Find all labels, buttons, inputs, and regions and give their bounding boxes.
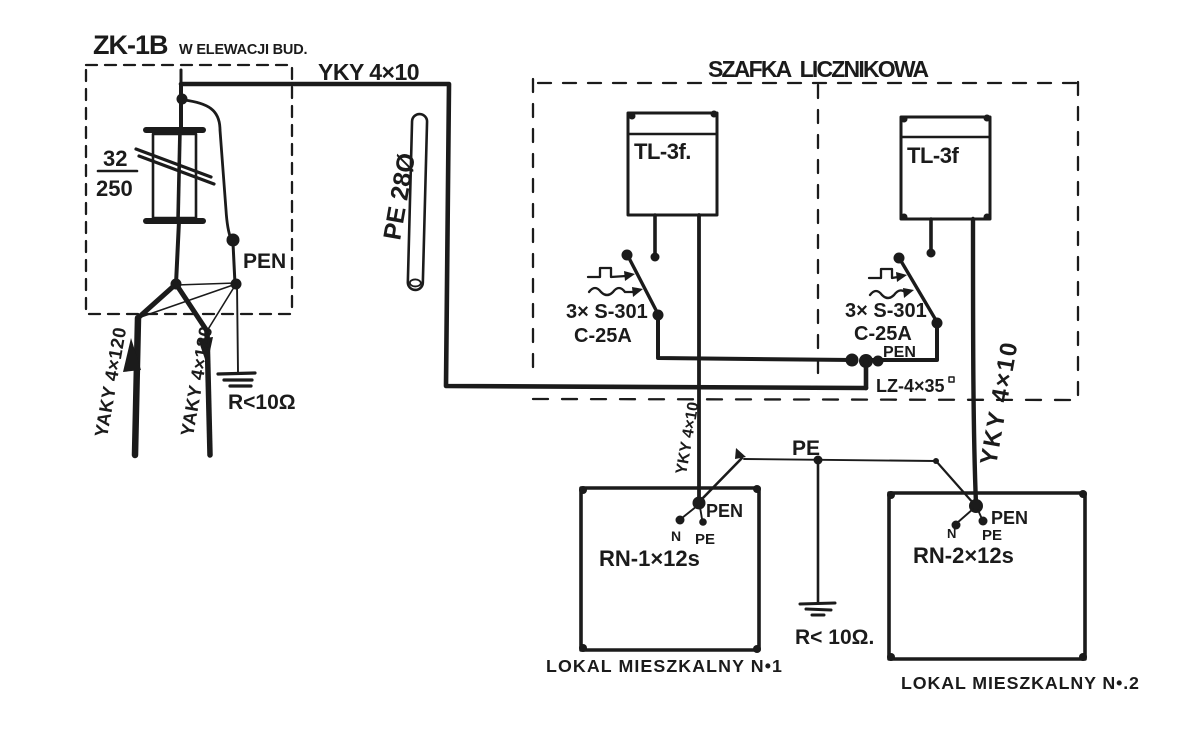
RN-2 corner dots (887, 491, 895, 499)
svg-text:TL-3f.: TL-3f. (634, 139, 691, 164)
wire PEN1 to PE (700, 507, 702, 519)
meter1 stub terminal (653, 215, 657, 253)
breaker S1 blade (629, 258, 658, 314)
breaker S2 blade tip dot (894, 253, 905, 264)
wire PEN1 to N (682, 506, 697, 518)
wire junction drop to bus (864, 361, 869, 388)
dashed divider middle (817, 85, 819, 385)
svg-text:RN-1×12s: RN-1×12s (599, 546, 700, 571)
wire PEN to junction2 (233, 243, 235, 284)
arrow PE left end (735, 448, 746, 459)
fuse F1 top cap (146, 127, 203, 133)
wire thin J2 to right cable (207, 284, 236, 331)
svg-text:PEN: PEN (991, 508, 1028, 528)
RN-1 corner dots (579, 486, 587, 494)
svg-text:250: 250 (96, 176, 133, 201)
svg-text:LZ-4×35: LZ-4×35 (876, 376, 945, 396)
svg-text:3× S-301: 3× S-301 (566, 301, 648, 323)
wire thick split right (176, 284, 207, 331)
wire PEN2 to N (957, 509, 973, 523)
svg-text:N: N (671, 528, 681, 544)
wire PE horizontal (744, 459, 936, 461)
wire fuse drop (179, 84, 183, 130)
wire thin J2 to left cable (138, 284, 236, 318)
node PE corner right (933, 458, 939, 464)
svg-text:R<10Ω: R<10Ω (228, 391, 296, 414)
wire thick split left (138, 284, 176, 318)
svg-text:YAKY 4×120: YAKY 4×120 (90, 325, 130, 438)
svg-text:W ELEWACJI BUD.: W ELEWACJI BUD. (179, 42, 307, 58)
cable YAKY left (135, 318, 138, 455)
dashed enclosure SZAFKA right (1077, 82, 1079, 397)
svg-text:YKY 4×10: YKY 4×10 (975, 339, 1023, 467)
label LZ superscript square (949, 377, 954, 382)
svg-text:PE 28Ø: PE 28Ø (378, 151, 421, 242)
breaker S1 trip symbol lower wavy (589, 288, 633, 295)
breaker S2 trip symbol upper (869, 269, 898, 278)
pipe PE 28 (408, 114, 428, 290)
svg-text:C-25A: C-25A (574, 325, 632, 347)
node junction J2 (231, 279, 242, 290)
svg-text:YKY 4×10: YKY 4×10 (318, 59, 419, 85)
svg-text:PEN: PEN (883, 344, 916, 361)
svg-text:32: 32 (103, 146, 127, 171)
svg-text:N: N (947, 526, 956, 541)
fuse F1 bottom cap (146, 218, 203, 224)
ground symbol left (218, 373, 255, 386)
breaker S1 lower wire (658, 315, 853, 360)
breaker S2 trip symbol lower wavy (870, 290, 906, 298)
wire PEN2 to PE (978, 510, 982, 519)
fuse F1 body (153, 134, 196, 218)
meter1 corner dots (629, 113, 636, 120)
svg-text:PEN: PEN (706, 501, 743, 521)
svg-text:RN-2×12s: RN-2×12s (913, 543, 1014, 568)
meter2 divider (901, 136, 990, 139)
consumer unit RN-1 box (581, 488, 759, 650)
wire PE ground stem (817, 460, 820, 602)
node junction dot (177, 94, 188, 105)
wire curved PEN branch (184, 100, 231, 239)
svg-text:C-25A: C-25A (854, 323, 912, 345)
node PEN blob (227, 234, 240, 247)
svg-text:3× S-301: 3× S-301 (845, 300, 927, 322)
meter2 corner dots (901, 116, 908, 123)
wire main feed horizontal YKY 4x10 (181, 84, 866, 388)
breaker S1 trip symbol upper (588, 268, 626, 277)
svg-text:R< 10Ω.: R< 10Ω. (795, 626, 874, 649)
breaker S1 blade tip dot (622, 250, 633, 261)
fuse F1 strike diagonal (136, 149, 214, 184)
breaker S2 lower wire (866, 323, 937, 360)
svg-text:PE: PE (982, 527, 1002, 544)
wire PE diagonal to PEN2 (936, 461, 974, 504)
svg-text:LOKAL MIESZKALNY N•1: LOKAL MIESZKALNY N•1 (546, 656, 783, 676)
meter2 stub terminal (929, 219, 933, 249)
node PE dot (814, 456, 823, 465)
wire through fuse (178, 130, 180, 221)
dashed enclosure SZAFKA top (538, 82, 1078, 84)
meter TL-3f no.2 box (901, 117, 990, 219)
value label 32/250 (96, 146, 133, 201)
svg-text:LOKAL MIESZKALNY N•.2: LOKAL MIESZKALNY N•.2 (901, 673, 1140, 693)
dashed enclosure ZK-1B (86, 65, 292, 314)
svg-text:PE: PE (792, 437, 820, 460)
arrow up on left cable (123, 338, 141, 372)
svg-text:PEN: PEN (243, 250, 286, 273)
svg-text:ZK-1B: ZK-1B (93, 30, 168, 60)
meter TL-3f no.1 box (628, 113, 717, 215)
dashed enclosure SZAFKA left (532, 79, 534, 378)
arrow down on right cable (198, 337, 213, 365)
node junction J1 (171, 279, 182, 290)
node PEN2 blob (969, 499, 983, 513)
ground symbol middle (800, 603, 835, 615)
wire meter1 output (697, 215, 701, 502)
wire meter2 output (973, 219, 976, 504)
wire thin J1-J2 (176, 283, 236, 285)
fraction bar (98, 170, 137, 173)
wire ground stem left (237, 284, 238, 372)
breaker S1 bend dot (653, 310, 664, 321)
wire feed stub overshoot (180, 70, 183, 86)
wire PE diagonal to PEN1 (700, 458, 742, 501)
svg-text:SZAFKA LICZNIKOWA: SZAFKA LICZNIKOWA (708, 56, 928, 82)
node junction blobs LZ (846, 354, 859, 367)
svg-text:TL-3f: TL-3f (907, 143, 959, 168)
meter1 divider (628, 133, 717, 136)
cable YAKY right (207, 331, 210, 455)
breaker S2 bend dot (932, 318, 943, 329)
dashed enclosure SZAFKA bottom (533, 399, 1078, 400)
node PEN1 blob (693, 497, 706, 510)
wire fuse bottom to junction (176, 221, 179, 284)
consumer unit RN-2 box (889, 493, 1085, 659)
breaker S2 blade (901, 261, 937, 322)
